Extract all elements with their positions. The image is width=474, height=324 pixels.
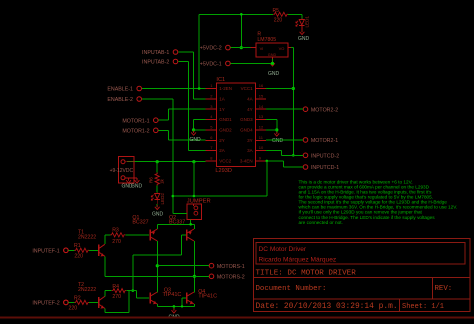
- svg-text:LM7805: LM7805: [257, 37, 276, 43]
- svg-text:10: 10: [259, 145, 264, 150]
- svg-text:INPUTAB-1: INPUTAB-1: [142, 50, 169, 56]
- svg-text:GND2: GND2: [219, 128, 232, 133]
- svg-text:MOTOR2-1: MOTOR2-1: [311, 138, 338, 144]
- svg-text:VCC2: VCC2: [219, 159, 232, 164]
- svg-text:3-4EN: 3-4EN: [240, 159, 253, 164]
- svg-text:LED2: LED2: [160, 193, 165, 205]
- svg-text:VO: VO: [279, 46, 285, 51]
- svg-text:are connected or not.: are connected or not.: [299, 220, 343, 225]
- svg-text:INPUTCD-1: INPUTCD-1: [311, 165, 339, 171]
- svg-text:Date: 20/10/2013 03:29:14 p.m.: Date: 20/10/2013 03:29:14 p.m.: [256, 302, 398, 311]
- svg-text:GND1: GND1: [219, 117, 232, 122]
- svg-text:R5: R5: [273, 8, 280, 14]
- svg-text:ENABLE-1: ENABLE-1: [107, 87, 133, 93]
- svg-text:JUMPER: JUMPER: [187, 198, 211, 204]
- svg-text:220: 220: [69, 306, 78, 312]
- svg-text:ENABLE-2: ENABLE-2: [107, 97, 133, 103]
- svg-text:INPUTEF-1: INPUTEF-1: [32, 248, 59, 254]
- svg-text:GND: GND: [272, 138, 284, 144]
- svg-text:BC327: BC327: [132, 220, 148, 226]
- svg-text:220: 220: [74, 254, 83, 260]
- svg-text:R3: R3: [112, 228, 119, 234]
- svg-text:Ricardo Márquez Márquez: Ricardo Márquez Márquez: [259, 257, 337, 264]
- svg-text:GND: GND: [152, 211, 164, 217]
- svg-text:1A: 1A: [219, 96, 225, 101]
- svg-text:+5VDC-2: +5VDC-2: [200, 46, 222, 52]
- svg-text:MOTOR1-2: MOTOR1-2: [122, 128, 149, 134]
- svg-text:TIP41C: TIP41C: [198, 294, 217, 300]
- svg-text:R4: R4: [112, 284, 119, 290]
- svg-text:220: 220: [274, 18, 283, 24]
- svg-text:BC337: BC337: [169, 220, 185, 226]
- svg-text:1-2EN: 1-2EN: [219, 86, 232, 91]
- svg-text:4A: 4A: [247, 96, 253, 101]
- svg-text:1k: 1k: [160, 178, 165, 184]
- svg-text:IC1: IC1: [216, 77, 225, 83]
- svg-text:R6: R6: [149, 177, 154, 183]
- svg-text:GND: GND: [268, 53, 277, 57]
- svg-text:270: 270: [112, 239, 121, 245]
- svg-text:INPUTAB-2: INPUTAB-2: [142, 60, 169, 66]
- svg-text:16: 16: [259, 83, 264, 88]
- svg-text:3Y: 3Y: [247, 138, 253, 143]
- svg-text:270: 270: [112, 294, 121, 300]
- svg-text:R2: R2: [74, 295, 81, 301]
- svg-text:GND4: GND4: [240, 128, 253, 133]
- svg-text:Document Number:: Document Number:: [256, 285, 327, 293]
- svg-text:TITLE: DC MOTOR DRIVER: TITLE: DC MOTOR DRIVER: [256, 270, 357, 278]
- svg-text:GND: GND: [268, 71, 280, 77]
- svg-text:4Y: 4Y: [247, 107, 253, 112]
- svg-text:TIP41C: TIP41C: [163, 292, 182, 298]
- svg-text:INPUTCD-2: INPUTCD-2: [311, 153, 339, 159]
- svg-text:GND: GND: [189, 137, 201, 143]
- svg-text:GND: GND: [298, 36, 310, 42]
- svg-text:+5VDC-1: +5VDC-1: [200, 62, 222, 68]
- svg-text:Sheet: 1/1: Sheet: 1/1: [402, 303, 444, 311]
- svg-text:15: 15: [259, 93, 264, 98]
- svg-text:MOTORS-1: MOTORS-1: [217, 264, 245, 270]
- svg-text:2A: 2A: [219, 148, 225, 153]
- svg-text:3A: 3A: [247, 148, 253, 153]
- svg-text:MOTOR2-2: MOTOR2-2: [311, 107, 338, 113]
- svg-text:2Y: 2Y: [219, 138, 225, 143]
- svg-text:LED1: LED1: [305, 16, 310, 28]
- svg-text:MOTOR1-1: MOTOR1-1: [122, 118, 149, 124]
- svg-text:MOTORS-2: MOTORS-2: [217, 274, 245, 280]
- svg-text:+9-12VDC: +9-12VDC: [110, 168, 134, 174]
- svg-text:INPUTEF-2: INPUTEF-2: [32, 301, 59, 307]
- svg-text:12: 12: [259, 125, 264, 130]
- svg-text:VCC1: VCC1: [241, 86, 254, 91]
- svg-text:L293D: L293D: [215, 168, 231, 174]
- svg-text:GND: GND: [131, 184, 143, 190]
- svg-text:2N2222: 2N2222: [78, 235, 96, 241]
- svg-text:1Y: 1Y: [219, 107, 225, 112]
- svg-text:REV:: REV:: [435, 285, 453, 293]
- svg-text:GND3: GND3: [240, 117, 253, 122]
- svg-text:2N2222: 2N2222: [78, 287, 96, 293]
- svg-text:VI: VI: [260, 46, 264, 51]
- svg-text:13: 13: [259, 114, 264, 119]
- svg-text:14: 14: [259, 104, 264, 109]
- svg-text:DC Motor Driver: DC Motor Driver: [259, 246, 307, 253]
- svg-text:R1: R1: [74, 243, 81, 249]
